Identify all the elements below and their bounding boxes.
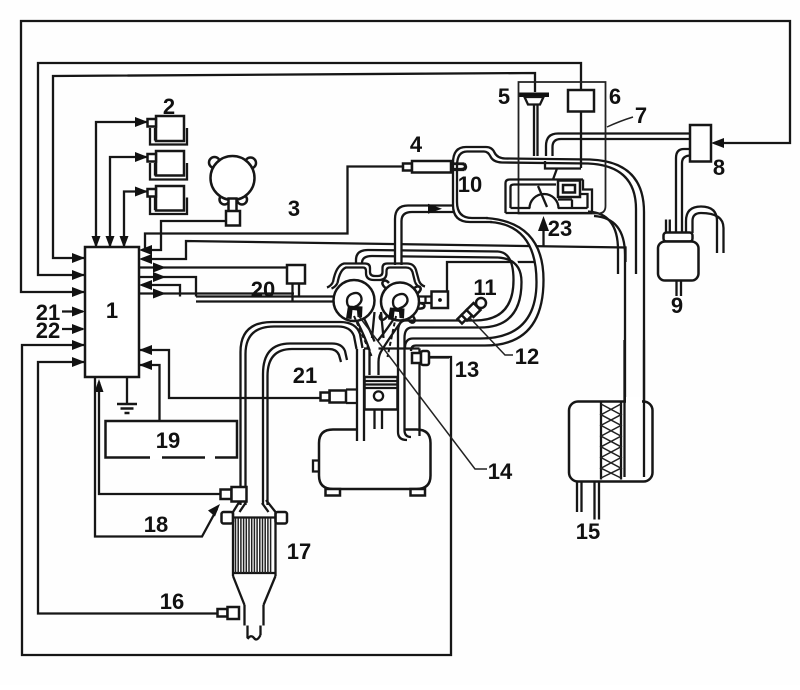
canister 9 top stubs [666,220,670,234]
engine cylinder walls [357,349,420,442]
svg-text:5: 5 [498,84,510,109]
sensor 5 cap [519,93,549,157]
leader 12 [469,317,513,355]
valve box 8 [690,125,711,162]
svg-text:9: 9 [671,293,683,318]
wire coil 1 [92,117,149,248]
svg-text:2: 2 [163,94,175,119]
hose 7 throttle to valve 8 [546,134,691,157]
svg-text:14: 14 [488,459,513,484]
valve stems black marks [346,306,405,321]
ignition coil 2b [148,151,188,180]
MUFFLER 15 [569,340,653,520]
throttle body 23 block [506,161,593,213]
svg-text:12: 12 [515,344,539,369]
box 19 [106,421,238,458]
fitting 4 [403,161,465,173]
svg-text:8: 8 [713,155,725,180]
exhaust port fitting 16 [218,607,240,619]
svg-text:17: 17 [287,539,311,564]
wire arrow 22 label [62,324,85,334]
hose valve 8 down to canister 9 [676,149,691,237]
AIRBOX 10 outline [453,147,644,477]
wire coil 2 [106,152,149,248]
wire injector 11 [447,262,536,292]
wire coil 3 [120,187,149,249]
solenoid box 6 [568,90,594,112]
spark plug 12 [458,298,487,324]
wire solenoid 6 down to throttle [580,112,582,169]
svg-text:18: 18 [144,512,168,537]
ground below ECU [117,377,137,413]
ECU box 1 [85,247,139,377]
CONVERTER 17 [222,500,288,639]
svg-text:11: 11 [473,275,496,300]
svg-text:6: 6 [609,84,621,109]
svg-text:21: 21 [293,363,317,388]
crankcase [313,430,431,496]
piston with rings [365,377,398,429]
svg-text:20: 20 [251,277,275,302]
hose outer U throttle to engine head [405,218,544,351]
wire into ECU y285 [139,280,180,297]
crank sensor 3 rotor [209,156,256,226]
svg-text:3: 3 [288,196,300,221]
wire ECU to sensor 5 (net C) [53,73,535,263]
wire 16 ECU to exhaust port [38,357,220,614]
arrow 23 into throttle [538,216,549,246]
wire 18 ECU to O2 sensor [95,379,223,494]
svg-text:16: 16 [160,589,184,614]
ignition coil 2a [148,116,188,145]
svg-text:23: 23 [548,216,572,241]
leader 18 with arrow [95,377,220,537]
hose 20 junction to throttle circle A [196,297,335,302]
svg-text:22: 22 [36,318,60,343]
svg-text:10: 10 [458,172,482,197]
canister 9 [658,233,699,281]
hose manifold to throttle body (pair P) [356,250,498,263]
ignition coil 2c [148,186,188,214]
wire out ECU y293 [139,289,294,299]
svg-text:15: 15 [576,519,600,544]
throttle bore circle B with tabs [380,281,425,323]
leader 14 [358,315,487,469]
wire ECU branch to hose junction [139,272,196,297]
wire knock sensor 21 to ECU [139,345,322,398]
boundary rect 7 [519,82,606,214]
bracket and fitting 13 [412,349,449,437]
wire arrow 21 label [62,307,85,317]
wire bottom loop ECU to fitting 13 [22,340,451,655]
svg-text:13: 13 [455,357,479,382]
svg-text:7: 7 [635,103,647,128]
hose sensor 20 stem [293,284,300,302]
svg-text:19: 19 [156,428,180,453]
valve channels V [354,312,401,375]
wire crank sensor 3 to ECU [139,221,227,255]
wire box 19 to ECU [139,360,160,421]
wire long line ECU to muffler duct [139,241,626,264]
svg-text:1: 1 [106,298,118,323]
wire ECU to sensor 20 [139,263,288,273]
EXHAUST ARCH engine to converter [241,322,363,505]
O2 sensor fitting 18 target [221,487,247,502]
hose canister 9 vent J [686,207,724,254]
svg-text:4: 4 [410,132,423,157]
injector 11 [419,292,448,309]
sensor box 20 [287,265,305,284]
throttle bore circle A [334,280,375,321]
leader 7 [607,117,633,127]
intake manifold runners [327,264,425,289]
wire fitting 4 to ECU [145,167,403,251]
hose inner U airbox to engine intake [398,252,522,441]
canister 9 bottom stub [677,281,682,297]
wire ECU to solenoid 6 (net B) [38,63,581,280]
hose manifold to airbox with arrow [395,204,453,265]
knock sensor 21 on engine [321,390,358,404]
wire ECU loop to valve 8 (net A) [21,21,790,297]
